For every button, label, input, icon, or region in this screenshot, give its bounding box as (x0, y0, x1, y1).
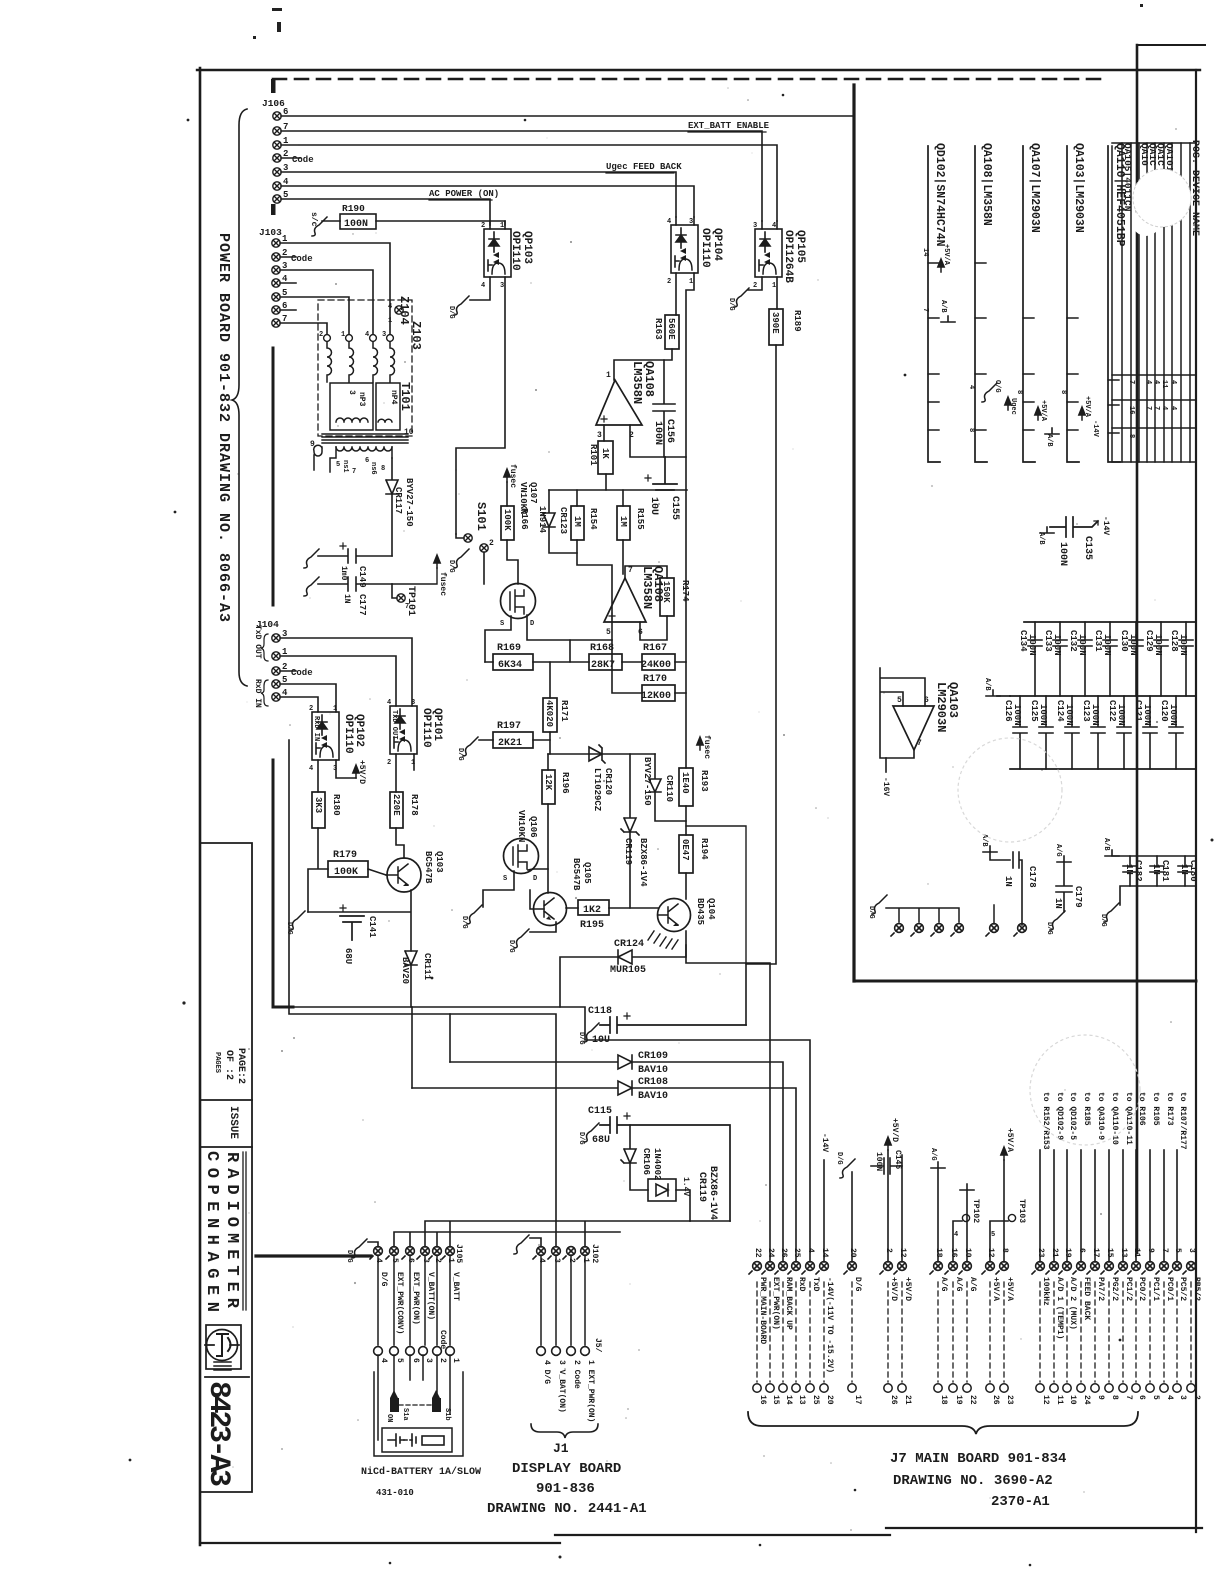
svg-text:CR124: CR124 (614, 939, 644, 950)
svg-text:7: 7 (352, 468, 356, 476)
svg-text:1.4V: 1.4V (681, 1177, 690, 1196)
J7 pin 15 PG2/2 (1101, 1262, 1113, 1274)
svg-text:2K21: 2K21 (498, 738, 522, 749)
svg-text:fusec: fusec (438, 572, 447, 596)
capacitor C128 100N (1179, 622, 1193, 696)
svg-text:11: 11 (1160, 380, 1168, 388)
svg-text:R170: R170 (643, 674, 667, 685)
svg-text:PC5/2: PC5/2 (1178, 1277, 1187, 1301)
svg-text:8: 8 (1015, 390, 1023, 394)
svg-text:+5V/A: +5V/A (942, 244, 950, 266)
capacitor C145 100N (888, 1150, 902, 1262)
svg-text:to R152/R153: to R152/R153 (1041, 1092, 1050, 1150)
battery connector row (374, 1347, 383, 1356)
svg-text:R197: R197 (497, 721, 521, 732)
svg-text:4: 4 (1160, 406, 1168, 410)
svg-text:RADIOMETER: RADIOMETER (222, 1152, 241, 1309)
svg-text:1N: 1N (342, 594, 351, 604)
capacitor C121 100N (1143, 696, 1157, 769)
resistor R171 4K020 (543, 698, 557, 732)
svg-text:EXT_PWR(CONV): EXT_PWR(CONV) (395, 1272, 404, 1334)
test point TP103 (990, 1221, 1008, 1262)
svg-text:3: 3 (1178, 1395, 1187, 1400)
title block column lines (200, 843, 252, 1492)
svg-text:R101: R101 (588, 444, 598, 466)
svg-text:4: 4 (1165, 1395, 1174, 1400)
resistor R180 3K3 (312, 792, 325, 828)
svg-text:PC0/2: PC0/2 (1137, 1277, 1146, 1301)
svg-text:A/G: A/G (968, 1277, 977, 1292)
svg-text:4 D/G: 4 D/G (542, 1360, 551, 1384)
svg-text:1: 1 (451, 1358, 460, 1363)
svg-text:16: 16 (1127, 406, 1135, 414)
svg-text:1: 1 (388, 317, 392, 325)
svg-text:C135: C135 (1082, 536, 1093, 560)
svg-text:VN10KN: VN10KN (516, 810, 526, 842)
svg-text:CR110: CR110 (664, 775, 674, 802)
svg-text:R190: R190 (342, 203, 365, 214)
svg-text:EXT_BATT ENABLE: EXT_BATT ENABLE (688, 121, 770, 131)
svg-text:C121: C121 (1133, 700, 1143, 722)
resistor R167 24K00 (642, 654, 675, 670)
svg-text:10U: 10U (648, 497, 659, 515)
J7 pin 18 A/G (930, 1262, 942, 1274)
svg-text:PAGE:2: PAGE:2 (235, 1048, 246, 1084)
svg-text:1M: 1M (572, 516, 582, 527)
svg-text:PAGES: PAGES (213, 1052, 221, 1073)
svg-text:100N: 100N (1077, 634, 1087, 656)
capacitor C123 100N (1091, 696, 1105, 769)
svg-text:VN10KN: VN10KN (518, 482, 528, 514)
battery box with switches S1a S1b (374, 1355, 463, 1456)
svg-text:T101: T101 (398, 382, 412, 411)
svg-text:Q103: Q103 (434, 851, 444, 873)
svg-text:3: 3 (500, 282, 504, 290)
optocoupler QP101 OPI110 (390, 706, 417, 754)
svg-text:D/G: D/G (835, 1152, 843, 1165)
svg-text:+5V/D: +5V/D (889, 1277, 898, 1301)
svg-text:CR119: CR119 (623, 838, 633, 865)
table row QA110 (1108, 146, 1120, 462)
svg-text:1: 1 (689, 278, 693, 286)
svg-text:9: 9 (1096, 1395, 1105, 1400)
J7 pin 14 -14V(-11V TO -15.2V) (816, 1262, 828, 1274)
wire main bus segments (686, 806, 770, 1262)
svg-text:2: 2 (753, 282, 757, 290)
svg-text:DISPLAY BOARD: DISPLAY BOARD (512, 1461, 621, 1477)
svg-text:21: 21 (903, 1395, 912, 1405)
svg-text:100N: 100N (1153, 634, 1163, 656)
svg-text:D/G: D/G (447, 560, 455, 573)
resistor R178 220E (390, 792, 403, 828)
svg-text:4: 4 (1144, 380, 1152, 384)
capacitor C130 100N (1129, 622, 1143, 696)
capacitor C177 (318, 577, 392, 591)
svg-text:3: 3 (382, 331, 386, 339)
svg-text:+5V/A: +5V/A (1039, 400, 1047, 422)
svg-text:901-836: 901-836 (536, 1481, 595, 1497)
J7 pin 12 +5V/D (894, 1262, 906, 1274)
svg-text:C123: C123 (1081, 700, 1091, 722)
table row QA107 (1023, 146, 1035, 462)
optocoupler QP102 OPI110 (312, 712, 339, 760)
svg-text:OPI1264B: OPI1264B (782, 230, 794, 283)
svg-text:QA108|LM358N: QA108|LM358N (980, 143, 993, 226)
svg-text:to R106: to R106 (1137, 1092, 1146, 1126)
svg-text:3: 3 (753, 222, 757, 230)
svg-text:1M: 1M (618, 516, 628, 527)
svg-text:OF :2: OF :2 (223, 1050, 234, 1080)
svg-text:+5V/A: +5V/A (991, 1277, 1000, 1301)
svg-text:25: 25 (792, 1248, 801, 1258)
svg-text:1E40: 1E40 (680, 772, 690, 794)
capacitor C118 10U (600, 1013, 746, 1033)
table row QA103 (1067, 146, 1079, 462)
svg-text:3: 3 (1187, 1248, 1196, 1253)
transformer T101 dashed outline (318, 300, 412, 436)
svg-text:D/G: D/G (460, 916, 468, 929)
svg-text:RxD IN: RxD IN (253, 679, 262, 708)
J105 drops to battery row (378, 1255, 450, 1345)
resistor R170 12K00 (642, 685, 675, 701)
svg-text:2: 2 (309, 705, 313, 713)
svg-text:R163: R163 (653, 318, 663, 340)
bracket brace left of connectors (232, 109, 247, 686)
svg-text:RAM_BACK UP: RAM_BACK UP (784, 1277, 793, 1330)
svg-text:7: 7 (1127, 380, 1135, 384)
diode CR110 BYV27-150 (649, 754, 686, 821)
svg-text:Code: Code (292, 155, 314, 165)
J7 misc top symbols (823, 1160, 825, 1262)
svg-text:C124: C124 (1055, 700, 1065, 722)
diode CR106 1N4002 (621, 1125, 648, 1190)
wire J106.1 (281, 145, 777, 221)
svg-text:C177: C177 (357, 594, 367, 616)
svg-text:C120: C120 (1159, 700, 1169, 722)
svg-text:11: 11 (1055, 1395, 1064, 1405)
wires row (485, 640, 686, 693)
svg-text:QA103|LM2903N: QA103|LM2903N (1072, 143, 1085, 233)
svg-text:J105: J105 (454, 1244, 463, 1263)
svg-text:R169: R169 (497, 643, 521, 654)
capacitor C156 100N (653, 360, 675, 457)
svg-text:s/c: s/c (309, 212, 318, 227)
J7 pin 25 RxD (788, 1262, 800, 1274)
svg-text:68U: 68U (592, 1135, 610, 1146)
svg-text:2: 2 (481, 222, 485, 230)
svg-text:100N: 100N (1128, 634, 1138, 656)
svg-text:1: 1 (772, 282, 776, 290)
op-amp QA103 LM2903N (893, 706, 934, 750)
capacitor C179 1N (1057, 856, 1071, 862)
svg-text:S1a: S1a (401, 1408, 409, 1421)
svg-text:100N: 100N (1116, 704, 1126, 726)
wire bus y1221 (425, 1221, 730, 1247)
svg-text:26: 26 (889, 1395, 898, 1405)
svg-text:BAV10: BAV10 (638, 1091, 668, 1102)
svg-text:BAV20: BAV20 (400, 957, 410, 984)
svg-text:LM2903N: LM2903N (934, 682, 948, 732)
svg-text:5: 5 (336, 461, 340, 469)
svg-text:DRAWING NO. 3690-A2: DRAWING NO. 3690-A2 (893, 1473, 1053, 1489)
svg-text:BYV27-150: BYV27-150 (404, 478, 414, 527)
svg-text:68U: 68U (343, 948, 353, 964)
resistor R196 12K (542, 770, 555, 804)
J7 pin 5 PC5/2 (1169, 1262, 1181, 1274)
svg-text:150K: 150K (661, 581, 671, 603)
svg-text:C145: C145 (893, 1150, 902, 1169)
J7 pin 6 FEED BACK (1073, 1262, 1085, 1274)
capacitor C182 1N (1123, 856, 1137, 886)
svg-text:2: 2 (489, 539, 494, 548)
svg-text:OPI110: OPI110 (699, 228, 711, 268)
svg-text:10: 10 (1068, 1395, 1077, 1405)
svg-text:C156: C156 (664, 419, 675, 443)
heavy frame lines right section (852, 85, 855, 981)
svg-text:10U: 10U (592, 1035, 610, 1046)
svg-text:7: 7 (628, 566, 633, 575)
svg-text:C118: C118 (588, 1006, 612, 1017)
svg-text:24: 24 (766, 1248, 775, 1258)
svg-text:3 V_BAT(ON): 3 V_BAT(ON) (557, 1360, 566, 1413)
wires J104 (280, 638, 412, 712)
svg-text:2: 2 (667, 278, 671, 286)
svg-text:4: 4 (667, 218, 671, 226)
capacitor C126 100N (1013, 696, 1027, 769)
svg-text:TP102: TP102 (971, 1199, 980, 1223)
svg-text:fusec: fusec (508, 464, 517, 488)
svg-text:PWR_MAIN-BOARD: PWR_MAIN-BOARD (758, 1277, 767, 1344)
svg-text:9: 9 (310, 440, 315, 449)
wire CR108 left drop (411, 1007, 413, 1088)
svg-text:A/B: A/B (983, 678, 991, 691)
svg-text:560E: 560E (666, 318, 676, 340)
svg-text:fusec: fusec (702, 735, 711, 759)
svg-text:to R105: to R105 (1151, 1092, 1160, 1126)
J7 pin 3 PB5/2 (1183, 1262, 1195, 1274)
heatsink hatching (648, 931, 678, 949)
svg-text:24K00: 24K00 (641, 660, 671, 671)
svg-text:17: 17 (853, 1395, 862, 1405)
svg-text:TP101: TP101 (405, 586, 416, 616)
svg-text:1m0: 1m0 (339, 566, 348, 581)
J7 pin 23 100kHz (1032, 1262, 1044, 1274)
svg-text:A/D 1 (TEMP1): A/D 1 (TEMP1) (1055, 1277, 1064, 1339)
svg-text:8: 8 (1059, 390, 1067, 394)
svg-text:A/G: A/G (954, 1277, 963, 1292)
J7 pin 8 +5V/A (996, 1262, 1008, 1274)
svg-text:QA107|LM2903N: QA107|LM2903N (1028, 143, 1041, 233)
svg-text:Q105: Q105 (582, 862, 592, 884)
svg-text:4: 4 (481, 282, 485, 290)
svg-text:R193: R193 (699, 770, 709, 792)
J7 pin 9 PC1/1 (1142, 1262, 1154, 1274)
wire D/G feed J105.4 (368, 1242, 378, 1247)
svg-text:QP103: QP103 (521, 231, 533, 264)
svg-text:4: 4 (388, 303, 392, 311)
svg-text:26: 26 (991, 1395, 1000, 1405)
svg-text:ns1: ns1 (341, 460, 349, 473)
svg-text:CR117: CR117 (393, 487, 403, 514)
svg-text:Code: Code (291, 668, 313, 678)
svg-text:C115: C115 (588, 1106, 612, 1117)
svg-text:0E47: 0E47 (680, 839, 690, 861)
svg-text:6: 6 (1137, 1395, 1146, 1400)
resistor R154 1M (571, 506, 584, 540)
winding coil 2 (324, 335, 331, 342)
svg-text:-16V: -16V (881, 777, 890, 796)
svg-text:D/G: D/G (867, 906, 875, 919)
J7 pin 7 PC0/1 (1156, 1262, 1168, 1274)
svg-text:Ugec FEED BACK: Ugec FEED BACK (606, 162, 682, 172)
svg-text:5: 5 (991, 1231, 995, 1239)
resistor R194 0E47 (679, 835, 693, 873)
wire bus B1 (293, 1007, 810, 1262)
svg-text:R179: R179 (333, 850, 357, 861)
svg-text:7: 7 (1124, 1395, 1133, 1400)
svg-text:3: 3 (424, 1358, 433, 1363)
svg-text:100N: 100N (1064, 704, 1074, 726)
svg-text:to R173: to R173 (1165, 1092, 1174, 1126)
J7 pin 4 TxD (802, 1262, 814, 1274)
svg-text:100N: 100N (1038, 704, 1048, 726)
svg-text:100K: 100K (334, 867, 358, 878)
svg-text:ON: ON (385, 1414, 393, 1422)
svg-text:R180: R180 (331, 794, 341, 816)
svg-text:26: 26 (779, 1248, 788, 1258)
svg-text:C125: C125 (1029, 700, 1039, 722)
diode CR109 BAV10 (450, 1055, 783, 1262)
svg-text:R168: R168 (590, 643, 614, 654)
svg-text:A/D 2 (MUX): A/D 2 (MUX) (1068, 1277, 1077, 1330)
diode CR117 BYV27-150 (386, 458, 398, 556)
svg-text:100N: 100N (1012, 704, 1022, 726)
svg-text:5: 5 (1151, 1395, 1160, 1400)
svg-text:J106: J106 (262, 98, 285, 109)
svg-text:to R185: to R185 (1082, 1092, 1091, 1126)
svg-text:23: 23 (1005, 1395, 1014, 1405)
svg-text:R155: R155 (635, 508, 645, 530)
resistor R174 150K (660, 578, 674, 616)
svg-text:EXT_PWR(ON): EXT_PWR(ON) (411, 1272, 420, 1325)
svg-text:Q107: Q107 (528, 482, 538, 504)
wires Q103 cluster (308, 828, 411, 951)
svg-text:16: 16 (758, 1395, 767, 1405)
svg-text:2: 2 (438, 1358, 447, 1363)
svg-text:LM358N: LM358N (640, 566, 654, 609)
svg-text:POWER BOARD 901-832 DRAWING NO: POWER BOARD 901-832 DRAWING NO. 8066-A3 (215, 233, 232, 623)
svg-text:8: 8 (1110, 1395, 1119, 1400)
svg-text:100K: 100K (502, 509, 512, 531)
svg-text:Z103: Z103 (409, 321, 423, 350)
svg-text:C134: C134 (1018, 630, 1028, 652)
capacitor C131 100N (1103, 622, 1117, 696)
svg-text:BD435: BD435 (695, 898, 705, 925)
svg-text:C130: C130 (1119, 630, 1129, 652)
svg-text:J102: J102 (590, 1244, 599, 1263)
svg-text:to QD102-5: to QD102-5 (1068, 1092, 1077, 1140)
wire J106.2 (281, 157, 300, 159)
svg-text:MUR105: MUR105 (610, 965, 646, 976)
svg-text:100N: 100N (1090, 704, 1100, 726)
svg-text:to R107/R177: to R107/R177 (1178, 1092, 1187, 1150)
svg-text:LM358N: LM358N (630, 361, 644, 404)
svg-text:+5V/A: +5V/A (1005, 1128, 1014, 1152)
transistor Q104 BD435 (658, 899, 691, 932)
svg-text:D/G: D/G (853, 1277, 862, 1292)
svg-text:22: 22 (968, 1395, 977, 1405)
svg-text:C132: C132 (1068, 630, 1078, 652)
svg-text:EXT_PWR(ON): EXT_PWR(ON) (771, 1277, 780, 1330)
svg-text:V_BATT: V_BATT (451, 1272, 460, 1301)
resistor R197 2K21 (493, 732, 533, 748)
svg-text:ISSUE: ISSUE (227, 1106, 239, 1139)
svg-text:C141: C141 (367, 916, 377, 938)
svg-text:R189: R189 (792, 310, 802, 332)
svg-text:4: 4 (1169, 380, 1177, 384)
svg-text:R174: R174 (680, 580, 690, 602)
J7 pin 10 A/G (959, 1262, 971, 1274)
svg-text:24: 24 (1082, 1395, 1091, 1405)
J102 lower row (537, 1347, 546, 1356)
heavy stub line left (256, 1254, 371, 1257)
svg-text:6: 6 (365, 457, 369, 465)
svg-text:5: 5 (897, 696, 902, 705)
svg-text:2370-A1: 2370-A1 (991, 1494, 1050, 1510)
svg-text:5: 5 (395, 1358, 404, 1363)
transistor Q103 BC547B (387, 858, 421, 892)
svg-text:1N: 1N (1124, 864, 1134, 875)
svg-text:PA7/2: PA7/2 (1096, 1277, 1105, 1301)
svg-text:3: 3 (597, 431, 602, 440)
wire CR109 left drop (449, 1014, 451, 1062)
svg-text:6: 6 (411, 1358, 420, 1363)
svg-text:A/G: A/G (939, 1277, 948, 1292)
J7 brace (748, 1412, 1138, 1434)
capacitor C134 100N (1028, 622, 1042, 696)
table row QA108 (975, 146, 987, 462)
op-amp QA108a LM358N (596, 380, 642, 425)
svg-text:C155: C155 (669, 496, 680, 520)
optocoupler QP103 OPI110 (484, 229, 511, 277)
svg-text:PB5/2: PB5/2 (1192, 1277, 1201, 1301)
svg-text:4: 4 (365, 331, 369, 339)
svg-text:8: 8 (381, 465, 385, 473)
zener CR119 BZX86-1V4 (648, 1179, 690, 1221)
secondary windings (314, 445, 392, 472)
svg-text:12K: 12K (543, 774, 553, 791)
svg-text:R196: R196 (560, 772, 570, 794)
resistor R190 (322, 214, 505, 229)
svg-text:PC1/2: PC1/2 (1124, 1277, 1133, 1301)
svg-text:1N: 1N (1179, 864, 1189, 875)
svg-text:-14V: -14V (1091, 420, 1099, 438)
svg-text:-14V: -14V (820, 1133, 829, 1152)
svg-text:1: 1 (500, 222, 504, 230)
svg-text:D/G: D/G (507, 940, 515, 953)
J7 pin 17 PA7/2 (1087, 1262, 1099, 1274)
svg-text:4: 4 (379, 1358, 388, 1363)
svg-text:1N: 1N (1003, 876, 1013, 887)
svg-text:OPI110: OPI110 (342, 714, 354, 754)
resistor R179 100K (328, 861, 368, 877)
svg-text:QP105: QP105 (794, 230, 806, 263)
svg-text:3: 3 (347, 390, 356, 395)
svg-text:14: 14 (921, 248, 929, 256)
J7 pin 13 PC1/2 (1115, 1262, 1127, 1274)
scan noise (213, 87, 1177, 1531)
svg-text:R195: R195 (580, 920, 604, 931)
